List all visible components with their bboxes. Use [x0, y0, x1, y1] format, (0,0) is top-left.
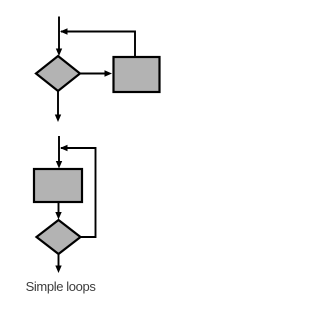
- wire: exit arrow below diamond D2: [55, 254, 61, 273]
- diamond D1 (decision): [36, 56, 80, 91]
- box B2 (process): [34, 169, 82, 202]
- wire: top entry vertical line into diamond D1: [56, 17, 62, 57]
- box B1 (process): [114, 57, 160, 92]
- wire: arrow from diamond D1 to box B1: [80, 70, 112, 76]
- wire: loop from diamond D2 right vertex back up to entry line (arrowhead left): [60, 145, 96, 237]
- wire: second entry vertical line into box B2: [56, 136, 62, 169]
- diamond D2 (decision): [37, 220, 81, 254]
- caption: Simple loops: [26, 279, 96, 294]
- wire: exit arrow below diamond D1: [55, 91, 61, 122]
- wire: feedback loop from box B1 top to entry line (arrowhead left): [60, 28, 135, 57]
- wire: connector from box B2 down into diamond D2: [55, 202, 61, 220]
